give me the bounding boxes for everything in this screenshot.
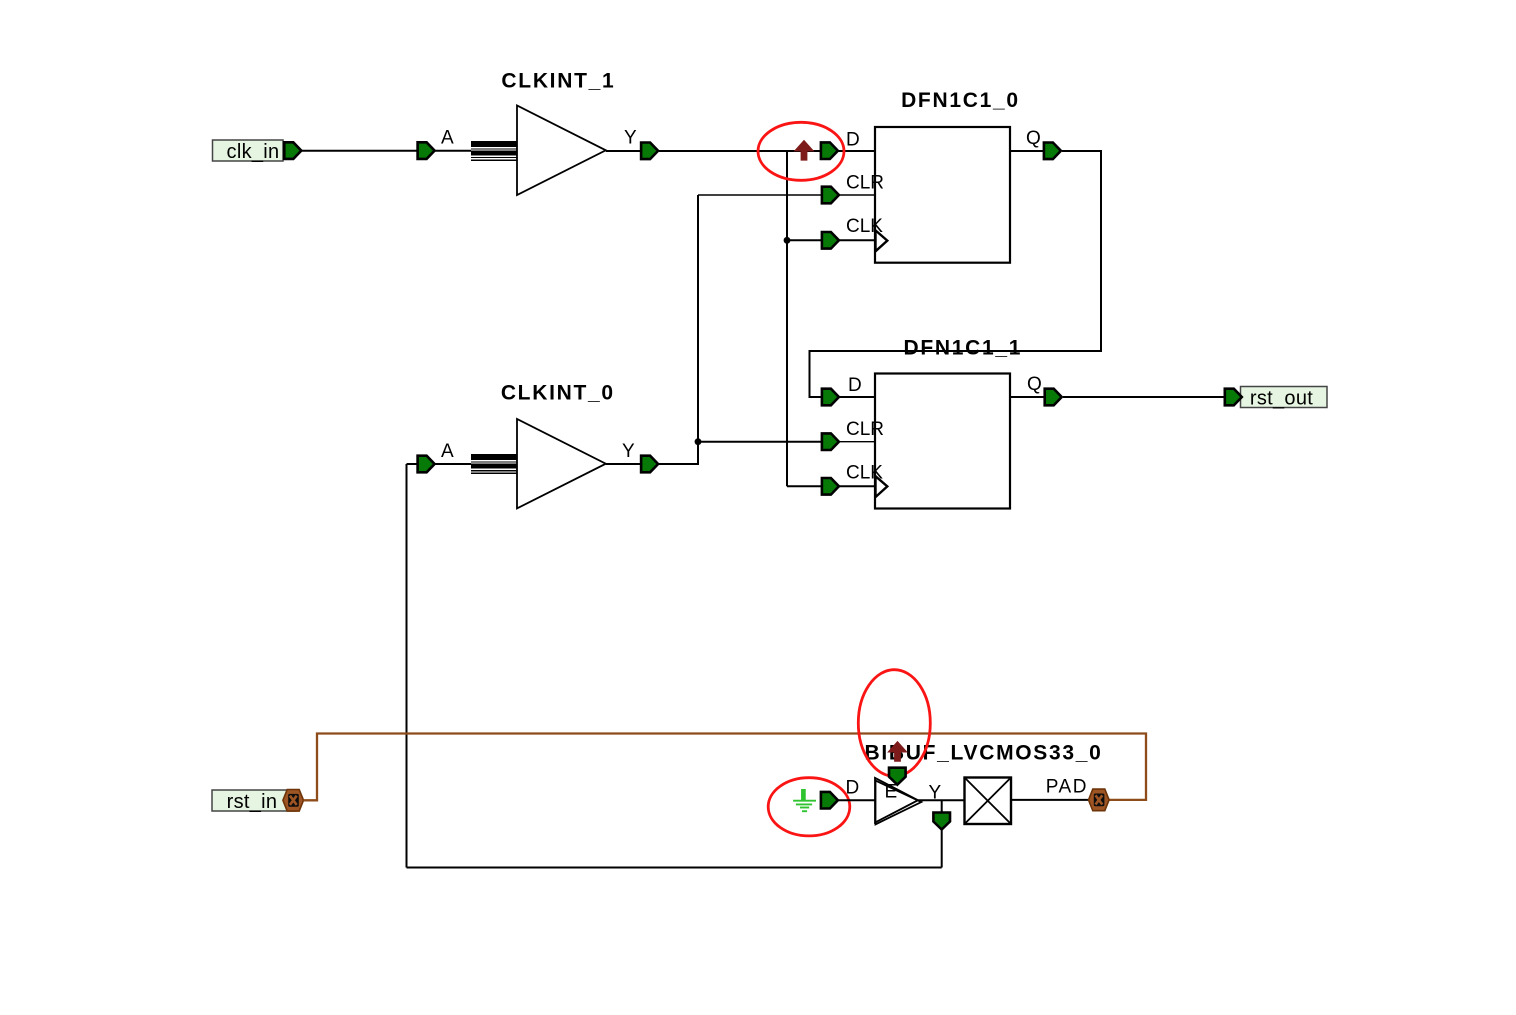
pin D of DFN1C1_1 (822, 389, 839, 406)
wire clk net to CLK pin DFN1C1_1 (787, 485, 822, 487)
wire CLK pin to body (838, 485, 875, 487)
wire PAD box to pad pin (1011, 799, 1089, 801)
wire Y1 to D of DFN1C1_0 (659, 150, 821, 152)
svg-text:rst_out: rst_out (1250, 388, 1313, 410)
svg-text:A: A (441, 128, 454, 149)
svg-text:CLR: CLR (846, 419, 884, 440)
wire feedback net from A of CLKINT_0 (407, 463, 418, 465)
dark red up arrow at D0 (794, 140, 815, 161)
brown wire rst_in to BIBUF PAD (304, 734, 1147, 801)
ground symbol at D of BIBUF (793, 789, 816, 811)
pin Y of CLKINT_1 (641, 143, 658, 160)
port label clk_in (213, 140, 284, 163)
svg-text:Q: Q (1027, 374, 1042, 395)
pin of clk_in port (284, 142, 301, 159)
svg-text:Q: Q (1026, 128, 1041, 149)
wire Q0 to D1 (feedthrough) (810, 151, 1102, 397)
clock wedge DFN1C1_1 (876, 476, 888, 497)
triangle CLKINT_1 (517, 106, 606, 196)
pin A of CLKINT_0 (418, 456, 435, 473)
wire D pin to triangle (838, 799, 876, 801)
pin E of BIBUF (down) (889, 768, 906, 785)
triangle BIBUF outer (875, 778, 918, 823)
pin Y of CLKINT_0 (641, 456, 658, 473)
wire CLR net to CLR pin DFN1C1_0 (698, 194, 822, 196)
svg-text:CLKINT_1: CLKINT_1 (501, 70, 615, 93)
svg-text:D: D (846, 778, 860, 799)
wire branch down to Y pin (941, 800, 943, 812)
wire D pin to body (838, 396, 875, 398)
pin CLR of DFN1C1_0 (822, 187, 839, 204)
svg-text:A: A (441, 441, 454, 462)
wire A pin to hatch (435, 150, 472, 152)
pin A of CLKINT_1 (418, 142, 435, 159)
junction dot CLR net (695, 438, 702, 445)
wire CLR pin to body (838, 194, 875, 196)
pad pin of BIBUF (1089, 789, 1110, 811)
svg-text:CLKINT_0: CLKINT_0 (501, 382, 615, 405)
pad pin of rst_in port (283, 790, 304, 812)
pin Q of DFN1C1_0 (1044, 143, 1061, 160)
wire feedback bottom horizontal (407, 867, 942, 869)
wire body to Q pin (1010, 396, 1045, 398)
dark red up arrow at E (887, 741, 908, 762)
wire CLR pin to body (838, 441, 875, 443)
wire body to Q pin (1010, 150, 1044, 152)
pin CLK of DFN1C1_0 (822, 232, 839, 249)
body DFN1C1_0 (875, 127, 1010, 263)
PAD box of BIBUF (965, 778, 1012, 825)
PAD box X diagonals (965, 778, 1012, 825)
clock wedge DFN1C1_0 (876, 230, 888, 251)
hatch bars CLKINT_0 input (471, 454, 517, 474)
svg-text:rst_in: rst_in (227, 791, 278, 813)
pin Q of DFN1C1_1 (1045, 389, 1062, 406)
pin Y of BIBUF (down) (933, 813, 950, 830)
port label rst_in (212, 790, 296, 813)
wire clk_in to CLKINT_1 A (302, 150, 417, 152)
pin CLR of DFN1C1_1 (822, 433, 839, 450)
wire CLK pin to body (838, 239, 875, 241)
junction dot clk net at CLK0 (784, 237, 791, 244)
svg-text:D: D (846, 129, 860, 150)
triangle BIBUF inner offset (876, 781, 922, 825)
hatch bars CLKINT_1 input (471, 141, 517, 161)
wire Q1 to rst_out (1063, 396, 1224, 398)
wire CLKINT_1 apex to Y pin (606, 150, 641, 152)
svg-text:DFN1C1_0: DFN1C1_0 (901, 89, 1020, 112)
pin CLK of DFN1C1_1 (822, 478, 839, 495)
svg-text:Y: Y (622, 441, 635, 462)
wire Y0 to CLR net (659, 442, 698, 464)
red ellipse around E (858, 670, 930, 777)
pin of rst_out port (1225, 389, 1242, 406)
svg-text:DFN1C1_1: DFN1C1_1 (903, 336, 1022, 359)
wire junction to CLR pin DFN1C1_1 (698, 441, 822, 443)
wire triangle apex to PAD box (918, 799, 965, 801)
svg-text:D: D (848, 375, 862, 396)
port label rst_out (1241, 387, 1328, 410)
svg-text:E: E (885, 782, 898, 803)
pin D of DFN1C1_0 (821, 142, 838, 159)
wire junction to CLK pin DFN1C1_0 (787, 239, 822, 241)
svg-text:CLR: CLR (846, 173, 884, 194)
wire CLR net vertical x698 (697, 195, 699, 465)
wire A pin to hatch (435, 463, 472, 465)
wire feedback vertical x406 (406, 464, 408, 868)
wire vertical clk net x787 (786, 151, 788, 486)
pin D of BIBUF (821, 792, 838, 809)
wire feedback up to BIBUF Y pin (941, 830, 943, 868)
svg-text:Y: Y (624, 128, 637, 149)
svg-text:clk_in: clk_in (227, 141, 280, 163)
red ellipse around ground/D (768, 778, 850, 836)
body DFN1C1_1 (875, 374, 1010, 509)
triangle CLKINT_0 (517, 419, 606, 508)
red ellipse around D0 arrow (758, 122, 844, 180)
wire D pin to body (838, 150, 875, 152)
wire CLKINT_0 apex to Y pin (606, 463, 641, 465)
svg-text:PAD: PAD (1046, 777, 1088, 798)
